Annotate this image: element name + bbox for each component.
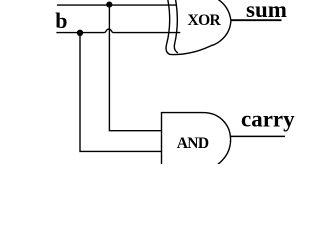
wire: AND output	[230, 135, 285, 137]
node: junction dot on input a	[106, 2, 112, 8]
svg-text:sum: sum	[246, 0, 287, 22]
svg-text:b: b	[55, 8, 67, 33]
wire: vertical from b-junction down to AND input	[80, 33, 162, 152]
wire: input a (top horizontal, label cropped above)	[57, 4, 177, 6]
wire: vertical from a-junction down to AND input	[109, 5, 161, 131]
svg-text:carry: carry	[241, 106, 295, 131]
svg-text:AND: AND	[177, 135, 209, 152]
xor-gate U1 upper right arc to tip	[218, 0, 231, 20]
wire: input b (horizontal with hop over vertical wire)	[56, 29, 180, 32]
wire: XOR output	[231, 19, 282, 21]
xor-gate U1 inner input arc	[174, 0, 178, 53]
xor-gate U1 (cropped at top) : outer input arc + lower hull	[166, 0, 231, 55]
and-gate U2 (bottom cropped)	[162, 113, 231, 167]
svg-text:XOR: XOR	[188, 12, 222, 29]
node: junction dot on input b	[77, 30, 83, 36]
